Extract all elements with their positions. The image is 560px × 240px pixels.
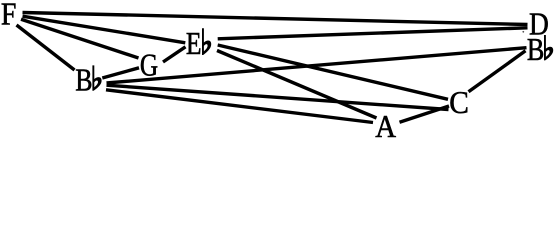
wire G-Eb xyxy=(163,47,186,62)
svg-text:B: B xyxy=(527,33,545,68)
wire Eb-C xyxy=(218,45,448,99)
wire F-Eb xyxy=(23,16,186,43)
wire Eb-A xyxy=(217,51,377,119)
node Bb right xyxy=(527,33,545,68)
node F xyxy=(1,0,17,32)
wire F-Bb(left) xyxy=(17,25,75,70)
node D xyxy=(529,7,549,42)
wire Bb(left)-A xyxy=(106,90,373,123)
svg-text:F: F xyxy=(1,0,17,32)
svg-text:B: B xyxy=(75,63,92,98)
wire Eb-D xyxy=(218,28,528,39)
node C xyxy=(449,85,469,120)
svg-text:E: E xyxy=(186,27,202,62)
wire G-Bb(left) xyxy=(102,68,139,78)
node G xyxy=(140,48,158,84)
wire F-G xyxy=(21,19,139,58)
wire C-Bb(right) xyxy=(469,51,526,92)
svg-text:A: A xyxy=(375,109,396,145)
wire Bb(left)-Bb(right) xyxy=(107,48,527,83)
wire A-C xyxy=(400,106,450,122)
svg-text:C: C xyxy=(449,85,469,120)
stray dot artifact near D xyxy=(522,31,524,33)
svg-text:G: G xyxy=(140,48,158,84)
wire Bb(left)-C xyxy=(107,85,449,109)
node Eb xyxy=(186,27,202,62)
wire F-D xyxy=(23,13,528,25)
node A xyxy=(375,109,396,145)
node Bb left xyxy=(75,63,92,98)
